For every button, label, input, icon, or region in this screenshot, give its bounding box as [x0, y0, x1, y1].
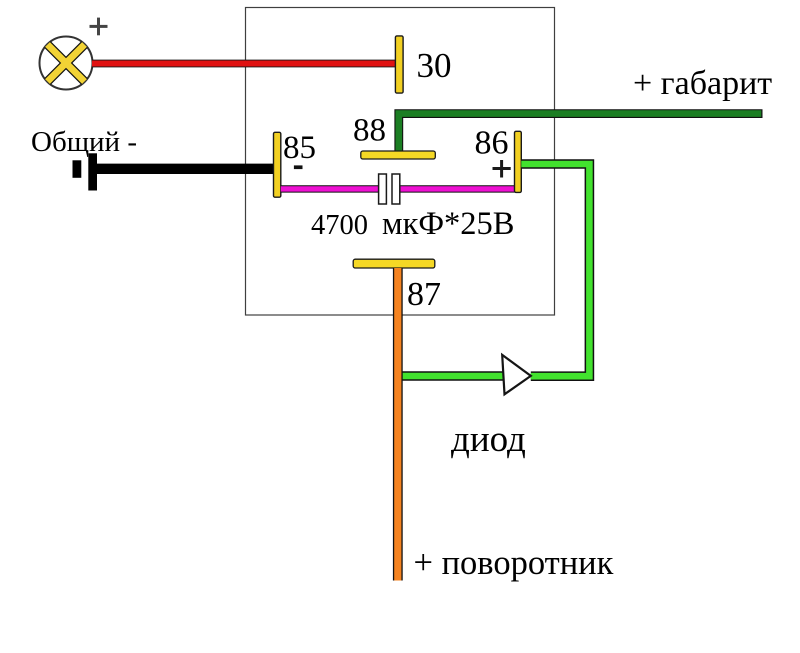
svg-text:диод: диод — [451, 419, 526, 460]
svg-text:88: 88 — [353, 113, 386, 149]
label + (lamp polarity) — [90, 18, 108, 36]
terminal 87 — [353, 259, 435, 268]
svg-text:30: 30 — [417, 46, 452, 85]
label - (capacitor negative) — [294, 165, 303, 169]
svg-text:4700: 4700 — [311, 210, 368, 241]
svg-text:мкФ*25В: мкФ*25В — [382, 206, 514, 242]
wire magenta: terminal 85 to capacitor — [281, 185, 379, 192]
terminal 30 — [395, 36, 403, 93]
svg-text:87: 87 — [407, 276, 441, 313]
terminal 88 — [361, 151, 436, 159]
lamp (indicator bulb) — [40, 37, 93, 90]
relay body outline — [246, 8, 555, 316]
wire bright green: diode anode to orange wire — [400, 371, 503, 381]
diode VD1 — [502, 355, 531, 394]
wire black: common to terminal 85 — [97, 164, 274, 174]
terminal 86 — [515, 131, 522, 192]
wire red: lamp to terminal 30 — [92, 60, 396, 68]
svg-text:+ габарит: + габарит — [633, 65, 772, 102]
terminal 85 — [274, 132, 281, 197]
svg-text:86: 86 — [475, 125, 509, 162]
wire bright green: terminal 86 to diode cathode — [521, 164, 589, 376]
wire dark green: + габарит to terminal 88 — [399, 114, 763, 151]
capacitor C1 plates — [379, 174, 400, 204]
ground connector (common minus) — [73, 153, 98, 190]
svg-text:+ поворотник: + поворотник — [414, 544, 614, 582]
wire magenta: capacitor to terminal 86 — [400, 185, 515, 192]
svg-text:85: 85 — [283, 130, 316, 166]
label + (capacitor positive) — [493, 160, 511, 178]
svg-text:Общий -: Общий - — [31, 126, 137, 158]
wire orange: terminal 87 to поворотник — [393, 268, 403, 581]
